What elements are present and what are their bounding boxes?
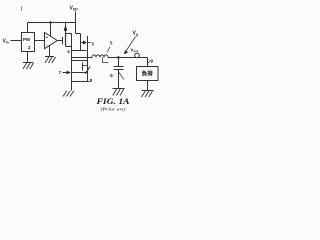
svg-text:3: 3 (91, 42, 94, 47)
svg-text:4: 4 (67, 49, 70, 54)
svg-text:(Prior art): (Prior art) (101, 107, 127, 112)
svg-text:Vg: Vg (133, 31, 138, 37)
svg-text:6: 6 (110, 73, 113, 78)
svg-text:9: 9 (151, 59, 154, 64)
svg-text:5: 5 (110, 41, 113, 46)
svg-text:PW: PW (23, 37, 31, 42)
svg-text:Vout: Vout (131, 48, 138, 54)
svg-text:負荷: 負荷 (142, 69, 154, 77)
svg-text:VDD: VDD (70, 6, 79, 12)
svg-text:8: 8 (90, 78, 93, 83)
svg-text:FIG. 1A: FIG. 1A (95, 97, 130, 106)
svg-text:2: 2 (28, 45, 31, 50)
svg-text:7: 7 (59, 70, 62, 75)
svg-text:Vin: Vin (3, 39, 9, 45)
svg-text:1: 1 (20, 7, 23, 13)
